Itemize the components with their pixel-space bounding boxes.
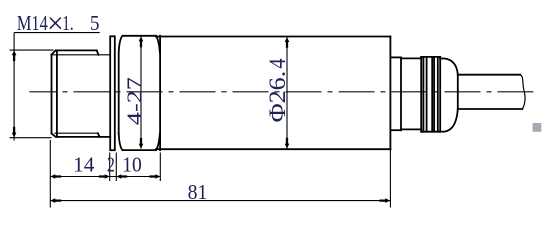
svg-text:4-27: 4-27 [122,77,146,125]
svg-text:5: 5 [90,11,100,35]
svg-text:1.: 1. [62,11,73,35]
svg-text:2: 2 [107,153,115,177]
svg-text:10: 10 [122,153,142,177]
svg-text:81: 81 [188,180,208,204]
svg-text:4: 4 [265,58,290,69]
svg-text:Φ26.: Φ26. [265,71,290,123]
svg-text:14: 14 [73,153,95,177]
svg-text:M14: M14 [17,11,48,35]
